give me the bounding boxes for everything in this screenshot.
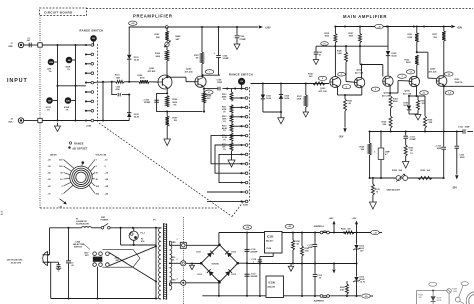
svg-text:417-234: 417-234 (185, 70, 194, 73)
jumper B (320, 295, 323, 298)
svg-text:1%: 1% (49, 71, 52, 73)
svg-text:10MF: 10MF (217, 82, 223, 84)
svg-text:Q104: Q104 (357, 68, 363, 71)
capacitor C115 (313, 273, 318, 275)
power board dotted border (183, 217, 185, 304)
-20V arrow right (455, 175, 458, 179)
switch S2 contact 13 (240, 200, 242, 202)
line selector right contacts (106, 252, 110, 256)
svg-text:100: 100 (419, 297, 422, 299)
svg-text:Q105: Q105 (384, 93, 390, 95)
svg-text:90K: 90K (66, 100, 70, 102)
resistor R130 (404, 145, 407, 156)
svg-text:1%: 1% (223, 130, 226, 132)
meter node ellipse a (429, 282, 437, 286)
wire Q107 emitter (443, 86, 445, 131)
resistor R141 (292, 233, 294, 241)
secondary tap top (169, 241, 171, 245)
wire Q101c to Q102b (167, 76, 186, 78)
resistor R104 (165, 50, 168, 61)
switch S1 contact 7 (85, 100, 87, 102)
capacitor C117 (245, 273, 250, 275)
rotary left leader 4 (64, 178, 70, 180)
svg-text:1%: 1% (223, 121, 226, 123)
+12V supply arrow (356, 224, 358, 233)
switch S1 contact 5 (85, 82, 87, 84)
RC loop (112, 82, 117, 95)
svg-text:1: 1 (177, 239, 178, 241)
switch S2 contact 3 (240, 106, 242, 108)
svg-text:+20V: +20V (265, 26, 271, 29)
svg-text:18K: 18K (361, 149, 365, 151)
chain tap wire 3 (232, 116, 242, 118)
bridge diode D112 (225, 251, 232, 258)
wire bus to Q103 (334, 46, 336, 76)
node ellipse 10 (321, 42, 329, 46)
svg-text:270MF: 270MF (240, 39, 247, 41)
svg-text:PREAMPLIFIER: PREAMPLIFIER (133, 14, 173, 19)
capacitor C107 (315, 46, 317, 51)
svg-text:12.7V: 12.7V (360, 281, 366, 283)
wire Q101 emitter (166, 89, 168, 93)
supply bottom rail (202, 295, 266, 297)
resistor R113 (230, 123, 233, 132)
terminal 1 (180, 242, 186, 248)
svg-text:(CW): (CW) (243, 205, 248, 207)
svg-text:Q106: Q106 (405, 90, 411, 92)
svg-text:56-56: 56-56 (437, 300, 442, 302)
svg-text:56-56: 56-56 (134, 116, 140, 118)
meter trim circle (455, 297, 460, 302)
svg-text:IC105: IC105 (267, 235, 274, 238)
resistor R120 (345, 46, 347, 52)
ac plug (43, 252, 48, 266)
secondary tap bottom (169, 283, 171, 286)
svg-text:2200MF: 2200MF (251, 276, 259, 278)
crossover wire 2 (109, 246, 156, 265)
svg-text:.05: .05 (71, 265, 74, 267)
IC105 box (265, 232, 283, 254)
svg-text:4.5K: 4.5K (340, 288, 345, 291)
main rail node ellipse (375, 24, 384, 28)
capacitor C116 (245, 248, 250, 250)
bridge diode D111 (207, 251, 214, 258)
preamp rail arrow (259, 25, 263, 28)
switch S2 contact 8 (240, 153, 242, 155)
rail20 n4 (333, 231, 335, 233)
wire base feed (94, 81, 97, 83)
switch S1 contact 8 (85, 110, 87, 112)
zener D115 (356, 233, 358, 245)
clamp ground (280, 112, 282, 118)
svg-text:RANGE SWITCH: RANGE SWITCH (229, 73, 253, 77)
main rail n2 (386, 25, 388, 27)
svg-text:1%: 1% (223, 140, 226, 142)
node rs2 a (226, 88, 228, 90)
line cap ground (51, 261, 59, 263)
svg-text:BLK: BLK (9, 121, 14, 123)
transistor Q104 (354, 77, 364, 87)
svg-text:D111: D111 (197, 251, 201, 253)
resistor R105 (139, 80, 149, 83)
wire Q103 emitter (337, 87, 339, 95)
ac rail node3 (132, 227, 134, 229)
svg-text:SLOW-BLOW: SLOW-BLOW (76, 223, 89, 225)
trimmer bias set (166, 41, 168, 42)
bracket wire 4 (207, 191, 242, 193)
rotary left leader 6 (64, 185, 74, 193)
terminal 2 (181, 261, 186, 266)
IC106 box (266, 276, 284, 298)
svg-text:INPUT: INPUT (7, 78, 28, 84)
wire Q105e to Q106b (390, 92, 398, 94)
resistor R2 (66, 57, 73, 64)
wire Q104 emitter (361, 87, 363, 95)
wire emitter bus (167, 111, 202, 113)
ground input (57, 123, 59, 126)
legend range (69, 142, 71, 144)
transformer primary wire (155, 228, 157, 299)
wire clamp lower (128, 95, 130, 110)
wire J2 to board (24, 120, 38, 122)
svg-text:-20V: -20V (339, 137, 344, 139)
node emitter bottom (166, 111, 168, 113)
wire R104 to Q101 (166, 61, 168, 77)
+20V supply arrow (333, 224, 335, 233)
wire feed drop (102, 82, 104, 121)
switch S1 contact 6 (85, 91, 87, 93)
chain tap wire 6 (232, 144, 242, 146)
switch S1 wiper stub (93, 44, 95, 45)
svg-text:RED: RED (172, 279, 177, 281)
wire chain top (231, 89, 233, 92)
svg-text:dB MV: dB MV (50, 154, 57, 156)
switch S1 contact 9 (85, 119, 87, 121)
svg-text:Q107: Q107 (430, 69, 436, 71)
circuit board label box (40, 8, 87, 16)
rotary switch S1 (70, 166, 92, 188)
node ellipse 9 (371, 87, 380, 91)
svg-text:250MF: 250MF (144, 102, 151, 104)
resistor R135 (417, 96, 419, 100)
fuse F1 (82, 227, 92, 228)
diode D101 (127, 55, 131, 59)
svg-text:20K: 20K (156, 37, 160, 39)
preamp +20 rail (129, 26, 258, 28)
node bot a (56, 119, 58, 121)
preamp rail connector (165, 26, 168, 29)
svg-text:JUMPER B: JUMPER B (314, 300, 325, 302)
capacitor C102 (117, 93, 119, 97)
-20V rail (370, 131, 463, 133)
svg-text:1%: 1% (223, 99, 226, 101)
main rail n4 (423, 25, 425, 27)
wire Q102 collector (202, 75, 204, 76)
switch S2 contact 10 (240, 172, 242, 174)
svg-text:56-56: 56-56 (392, 55, 398, 57)
wire clamp stems (262, 84, 264, 95)
selector bottom wire (97, 267, 99, 299)
main +20 rail (335, 26, 451, 28)
diode D105 column (387, 27, 389, 51)
rotary right leader 1 (88, 160, 95, 169)
svg-text:2200MF: 2200MF (251, 251, 259, 253)
diode D105 (386, 51, 390, 56)
main input wire (251, 83, 330, 85)
resistor R107 (166, 112, 168, 116)
svg-text:Q101: Q101 (149, 68, 155, 70)
capacitor C108 (217, 87, 219, 91)
transformer secondary winding (170, 241, 172, 245)
pilot resistor (133, 228, 135, 231)
bridge diamond (201, 245, 238, 282)
resistor R131 (416, 27, 418, 34)
resistor R114 (230, 133, 233, 142)
chain tap wire 2 (232, 106, 242, 108)
resistor R142 (301, 233, 303, 247)
wire Q106 emitter (416, 87, 418, 96)
node main in 1 (262, 82, 264, 84)
node ellipse 15 (445, 72, 454, 76)
-20V rail n1 (369, 130, 371, 132)
wire base Q101 (129, 81, 139, 83)
wire plug top (49, 254, 50, 256)
svg-text:3: 3 (177, 278, 178, 280)
resistor R126 (418, 177, 432, 180)
resistor R107 load (201, 27, 203, 52)
svg-text:1M: 1M (92, 38, 95, 40)
svg-text:1%: 1% (223, 149, 226, 151)
meter M1 body (469, 294, 474, 304)
svg-text:SCR746: SCR746 (212, 262, 219, 265)
resistor R3 (46, 97, 53, 104)
wire bias to R104 (166, 47, 168, 50)
node top b (74, 44, 76, 46)
main rail n3 (413, 25, 415, 27)
switch S1 contact 4 (85, 72, 87, 74)
preamp rail node1 (201, 26, 203, 28)
capacitor line C (68, 228, 70, 261)
svg-text:D113: D113 (232, 274, 236, 276)
wire Q107 base (417, 51, 428, 53)
svg-text:1%: 1% (223, 111, 226, 113)
svg-text:56-56: 56-56 (284, 98, 289, 100)
clamp bottom wire (262, 99, 264, 112)
capacitor C114s (314, 233, 316, 244)
svg-text:Q102: Q102 (186, 68, 192, 70)
node ellipse -20 (362, 294, 371, 298)
ac rail node1 (67, 227, 69, 229)
chain tap wire 1 (232, 97, 242, 99)
resistor R103 (165, 31, 168, 41)
wire attenuator leg1 (57, 45, 59, 121)
-20V rail n7 (456, 130, 458, 132)
switch S2 contact 12 (240, 191, 242, 193)
svg-text:(CW): (CW) (87, 126, 92, 128)
svg-text:417-134: 417-134 (319, 90, 328, 93)
switch S2 contact 11 (240, 182, 242, 184)
resistor R132 (415, 55, 418, 65)
svg-text:IC106: IC106 (269, 281, 276, 284)
jack J1 (18, 42, 23, 47)
bridge diode D113 (225, 269, 232, 276)
bracket wire 5 (207, 200, 242, 202)
svg-text:50-60 CPS: 50-60 CPS (11, 262, 22, 264)
switch S2 contact 1 (240, 88, 242, 90)
svg-text:1%: 1% (47, 109, 50, 111)
crossover outline (103, 249, 141, 267)
node ellipse 6 (318, 76, 327, 80)
svg-text:POWER: POWER (101, 220, 109, 222)
wire bridge to IC105 (247, 232, 265, 234)
svg-text:56-56: 56-56 (134, 59, 140, 61)
rotary left leader 5 (64, 182, 71, 186)
svg-text:600: 600 (348, 228, 351, 230)
meter circuit left wire (415, 291, 417, 304)
node Q101 collector (166, 76, 168, 78)
rotary left leader 1 (64, 160, 75, 169)
resistor R switch2 (238, 78, 245, 85)
pilot lamp branch (120, 228, 122, 245)
range switch 2 dashed boundary (249, 87, 251, 201)
rail20 n2 (301, 231, 303, 233)
svg-text:56-56: 56-56 (266, 98, 271, 100)
preamp rail node ellipse (129, 21, 138, 25)
svg-text:1560 5%: 1560 5% (455, 82, 463, 84)
chain tap wire 5 (232, 135, 242, 137)
center line (247, 263, 260, 265)
range switch 1 dashed boundary (97, 44, 99, 123)
svg-text:CIRCUIT BOARD: CIRCUIT BOARD (44, 11, 73, 15)
ground R130 (402, 162, 409, 169)
rotary right leader 4 (92, 178, 95, 180)
resistor R1 (48, 59, 55, 66)
junction square 2 (38, 118, 42, 122)
node bot c (102, 119, 104, 121)
rotary right leader 2 (90, 166, 95, 171)
diode D106 (408, 96, 410, 105)
svg-text:R140: R140 (341, 227, 346, 230)
rail20 n1 (292, 231, 294, 233)
svg-text:100MF: 100MF (223, 58, 230, 60)
svg-text:GAIN ADJUST: GAIN ADJUST (387, 189, 401, 192)
node ellipse 2 (342, 85, 351, 89)
pilot lamp PL1 (129, 231, 138, 240)
rotary right leader 3 (92, 173, 95, 175)
wire output right (444, 85, 474, 87)
meter diode D118 (431, 296, 436, 301)
node ellipse 3 (398, 74, 407, 78)
wire D105 to Q105 (387, 56, 389, 76)
rail20 n5 (355, 231, 357, 233)
bridge diode D110 (207, 269, 214, 276)
svg-text:10MF: 10MF (308, 247, 314, 249)
svg-text:RANGE SWITCH: RANGE SWITCH (80, 29, 104, 33)
switch S2 contact 9 (240, 163, 242, 165)
capacitor C104 (218, 27, 220, 55)
rotary right leader 6 (89, 185, 95, 193)
node mid b (74, 85, 76, 87)
capacitor C118 (258, 259, 262, 261)
resistor R137 (443, 27, 445, 32)
board diagonal dashed boundary (99, 123, 232, 217)
svg-text:RANGE: RANGE (74, 143, 84, 146)
capacitor C106 bypass (236, 27, 238, 35)
tail -20V arrow (343, 128, 346, 132)
resistor box R139 (380, 132, 382, 149)
transistor Q102 (195, 76, 206, 87)
rotary right leader 5 (91, 182, 95, 186)
zener D116 (356, 264, 358, 277)
rotary cw arrow (60, 199, 66, 203)
resistor R118 (313, 82, 325, 85)
main rail n1 (344, 25, 346, 27)
svg-text:.15: .15 (319, 277, 322, 279)
wire clamp column (128, 27, 130, 55)
meter link wire (459, 286, 463, 298)
capacitor C110 (456, 132, 458, 146)
node ellipse 12 (406, 70, 415, 74)
gain bottom wire (370, 177, 444, 179)
switch S2 contact 7 (240, 144, 242, 146)
wire Q102 emitter (203, 88, 205, 112)
svg-text:-20V: -20V (452, 187, 457, 189)
svg-text:4.7: 4.7 (385, 153, 388, 156)
svg-text:10MF: 10MF (437, 148, 443, 150)
-20V rail n3 (390, 130, 392, 132)
switch S2 contact 5 (240, 125, 242, 127)
resistor R5 switch (90, 35, 97, 42)
svg-text:417-134: 417-134 (403, 92, 412, 95)
board diagonal dashed boundary 2 (232, 201, 244, 217)
node feed b (111, 81, 113, 83)
circuit board left dotted border (39, 16, 41, 209)
svg-text:5.6K: 5.6K (338, 53, 343, 55)
svg-text:1M: 1M (48, 100, 51, 102)
transistor Q106 (409, 76, 419, 86)
capacitor C112 (443, 132, 445, 147)
-20V rail n6 (443, 130, 445, 132)
main rail n5 (443, 25, 445, 27)
resistor R121 tail (344, 95, 346, 99)
capacitor C111 (405, 132, 407, 136)
ground mid (290, 263, 292, 266)
bridge ac wire (238, 262, 247, 264)
switch S2 contact 4 (240, 116, 242, 118)
svg-text:MAIN AMPLIFIER: MAIN AMPLIFIER (343, 14, 387, 19)
svg-text:1M: 1M (196, 57, 199, 59)
svg-text:417-801: 417-801 (148, 70, 157, 73)
svg-text:120 OR 240 VAC: 120 OR 240 VAC (7, 258, 24, 261)
node bot b (74, 119, 76, 121)
feedback arrow (166, 126, 168, 139)
meter wire down (448, 293, 450, 304)
rotary pointer dot (82, 161, 85, 164)
resistor R119 (334, 27, 336, 34)
ac rail node4 (155, 227, 157, 229)
bracket wire 1 (211, 136, 242, 164)
node rs2 b (234, 88, 236, 90)
node clamp2 (128, 94, 130, 96)
capacitor C103 (154, 99, 159, 101)
node base junction (128, 81, 130, 83)
ground C106 (234, 44, 240, 50)
svg-text:442-636: 442-636 (268, 285, 276, 288)
trimmer R124 (396, 176, 401, 181)
resistor R110 (230, 92, 233, 101)
resistor R108 (202, 92, 205, 103)
wire collector column top (166, 27, 168, 31)
